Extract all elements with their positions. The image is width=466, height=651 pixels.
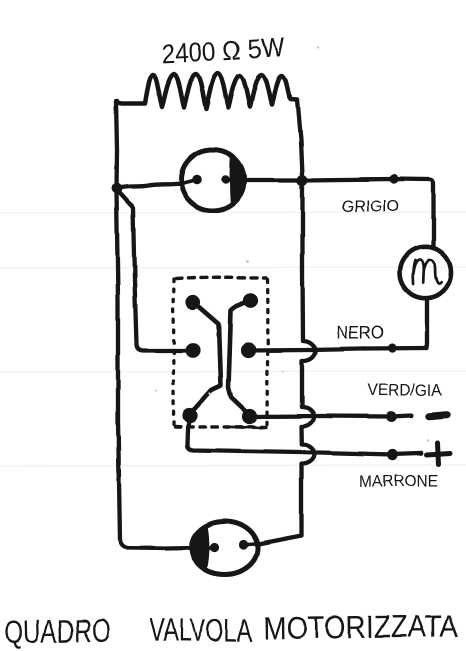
svg-text:VERD/GIA: VERD/GIA bbox=[368, 381, 443, 400]
svg-text:MARRONE: MARRONE bbox=[360, 472, 439, 491]
svg-text:MOTORIZZATA: MOTORIZZATA bbox=[263, 608, 459, 646]
svg-text:GRIGIO: GRIGIO bbox=[342, 198, 400, 216]
svg-text:QUADRO: QUADRO bbox=[4, 612, 111, 650]
svg-text:VALVOLA: VALVOLA bbox=[149, 611, 253, 648]
svg-text:NERO: NERO bbox=[337, 323, 384, 343]
